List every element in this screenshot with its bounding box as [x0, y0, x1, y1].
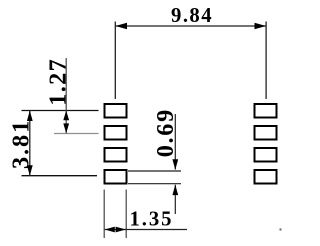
dimension 3.81 lower arrowhead [27, 165, 33, 176]
svg-text:3.81: 3.81 [7, 121, 34, 169]
pad P4 (left column, row 4) [105, 170, 127, 184]
dimension 9.84 left arrowhead [115, 23, 127, 30]
svg-text:1.27: 1.27 [45, 59, 72, 106]
pad P7 (right column, row 2) [255, 126, 277, 140]
pad P4 top extension line [128, 170, 181, 172]
dimension 1.35 left arrowhead [105, 227, 115, 233]
dimension 1.27 upper arrowhead [63, 111, 69, 121]
dimension 1.35 right arrowhead [116, 227, 126, 233]
dimension 0.69 upper leader line [174, 114, 176, 170]
pad P2 (left column, row 2) [105, 126, 127, 140]
dimension 0.69 lower leader line [174, 185, 176, 214]
svg-text:0.69: 0.69 [152, 110, 179, 158]
dimension 1.35 left extension line [103, 190, 105, 239]
svg-text:9.84: 9.84 [171, 5, 212, 27]
dimension 3.81 upper arrowhead [27, 111, 33, 122]
row-1 pad centerline (left) [22, 110, 99, 112]
dimension 1.35 right extension line [125, 190, 127, 239]
dimension 3.81 dimension line [29, 111, 31, 176]
dimension 1.27 dimension line [65, 58, 67, 133]
stray dot artifact [279, 228, 281, 230]
pad P5 (right column, row 4) [255, 170, 277, 184]
dimension 9.84 dimension line [115, 25, 266, 27]
pad P4 bottom extension line [128, 183, 181, 185]
dimension 9.84 right extension line [265, 22, 267, 100]
dimension 1.35 dimension line [105, 229, 187, 231]
dimension 9.84 right arrowhead [255, 23, 267, 30]
row-2 pad centerline (left, light) [54, 133, 99, 135]
dimension 0.69 upper arrowhead (points down) [172, 159, 178, 169]
dimension 1.27 lower arrowhead [63, 123, 69, 133]
pad P6 (right column, row 3) [255, 148, 277, 162]
row-4 pad centerline (left) [22, 175, 98, 177]
dimension 0.69 lower arrowhead (points up) [172, 185, 178, 195]
dimension 9.84 left extension line [114, 22, 116, 100]
pad P1 (left column, row 1) [105, 104, 127, 118]
pad P8 (right column, row 1) [255, 104, 277, 118]
svg-text:1.35: 1.35 [130, 209, 172, 231]
pad P3 (left column, row 3) [105, 148, 127, 162]
